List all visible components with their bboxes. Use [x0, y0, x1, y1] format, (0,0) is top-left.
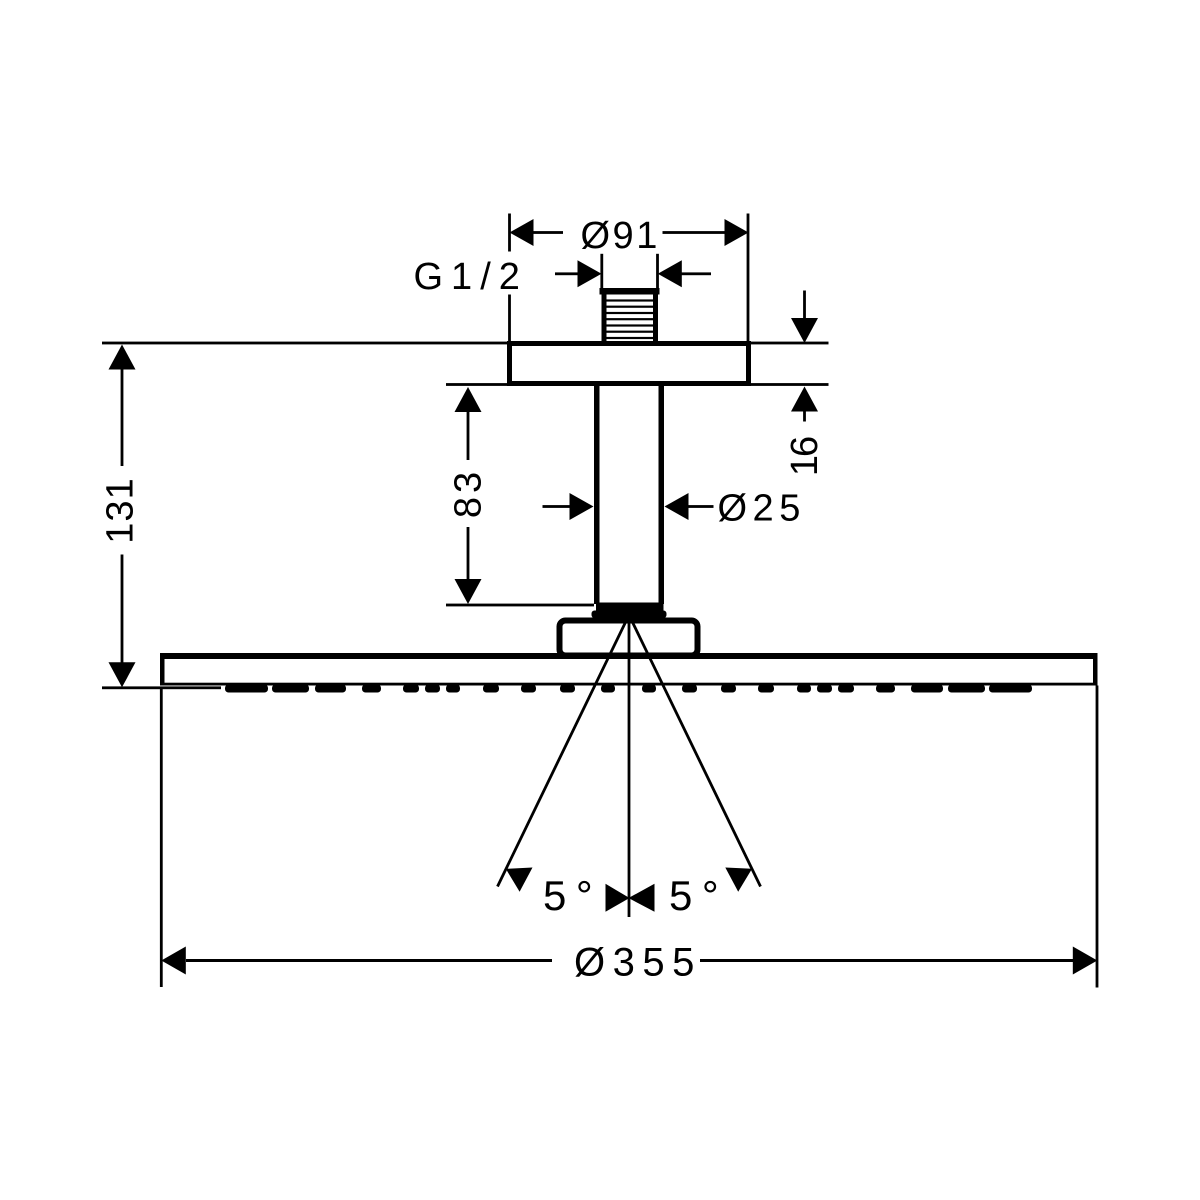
spray boundary line left [498, 615, 630, 887]
dimension Ø91 line and arrows [510, 219, 749, 246]
thread stub cap [600, 288, 660, 295]
nozzle dashes [225, 685, 1032, 693]
svg-text:Ø91: Ø91 [581, 215, 660, 257]
dimension Ø355 extension line left [160, 688, 163, 987]
spray angle arrowhead left [506, 868, 533, 892]
dimension Ø91 extension line right [747, 214, 750, 342]
spray centerline [628, 615, 631, 917]
connector washer [592, 611, 667, 619]
svg-text:83: 83 [448, 468, 490, 518]
thread stub body walls [602, 294, 659, 341]
svg-text:5°: 5° [669, 872, 728, 919]
svg-text:G1/2: G1/2 [414, 256, 528, 298]
dimension Ø25 arrows [543, 493, 714, 520]
flange bottom extension line left [446, 383, 509, 386]
thread width dimension arrows [555, 260, 711, 287]
ceiling flange [510, 344, 749, 384]
spray boundary line right [629, 615, 761, 887]
dimension 16 line and arrows [791, 291, 818, 422]
pipe bottom bar [596, 603, 664, 612]
dimension Ø355 line and arrows [161, 947, 1097, 975]
thread hatch lines [607, 299, 654, 339]
spray angle bowtie arrows at centerline [606, 884, 655, 912]
dimension 131 bottom extension line [102, 686, 221, 689]
flange top extension line left [102, 342, 509, 345]
thread width extension lines [600, 254, 658, 288]
dimension 83 bottom extension line [446, 604, 594, 607]
svg-text:16: 16 [784, 437, 826, 476]
svg-text:5°: 5° [543, 872, 602, 919]
dimension 83 line and arrows [455, 387, 482, 604]
flange bottom extension line right [749, 383, 829, 386]
svg-text:Ø25: Ø25 [718, 488, 806, 530]
flange top extension line right [749, 342, 829, 345]
dimension 131 line and arrows [109, 345, 136, 688]
shower plate [160, 653, 1098, 686]
svg-text:131: 131 [100, 477, 142, 543]
svg-text:Ø355: Ø355 [574, 941, 702, 985]
dimension Ø91 extension line left [508, 214, 511, 342]
pipe walls [594, 386, 664, 604]
spray angle arrowhead right [725, 868, 752, 892]
dimension Ø355 extension line right [1096, 686, 1099, 988]
mount block [560, 621, 698, 656]
